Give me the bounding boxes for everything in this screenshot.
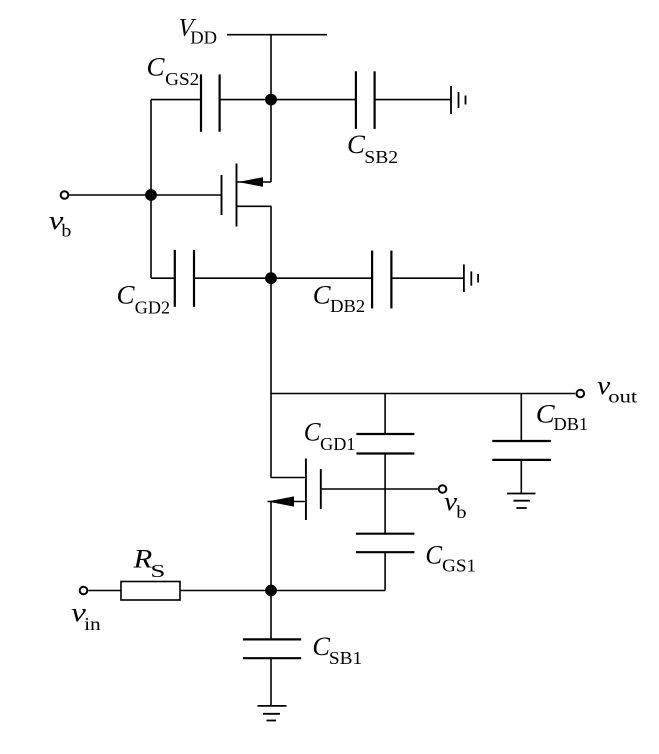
svg-text:SB2: SB2 [364, 148, 398, 168]
svg-text:in: in [84, 614, 101, 634]
svg-text:C: C [304, 417, 322, 446]
svg-text:C: C [425, 540, 443, 570]
svg-text:DB2: DB2 [330, 296, 365, 316]
svg-text:GD1: GD1 [320, 434, 355, 454]
svg-text:C: C [312, 632, 330, 661]
svg-text:S: S [150, 561, 165, 581]
svg-text:GS1: GS1 [442, 556, 476, 576]
svg-text:C: C [347, 129, 365, 159]
svg-text:b: b [61, 221, 71, 241]
svg-text:R: R [132, 546, 152, 574]
svg-text:GS2: GS2 [165, 70, 199, 90]
svg-text:GD2: GD2 [135, 297, 170, 317]
svg-text:b: b [456, 503, 466, 523]
svg-text:C: C [117, 280, 135, 309]
svg-text:DD: DD [190, 28, 217, 48]
svg-text:out: out [608, 388, 637, 407]
svg-text:C: C [313, 281, 331, 310]
svg-text:C: C [147, 52, 165, 81]
svg-text:DB1: DB1 [554, 414, 589, 434]
svg-text:SB1: SB1 [329, 648, 362, 668]
